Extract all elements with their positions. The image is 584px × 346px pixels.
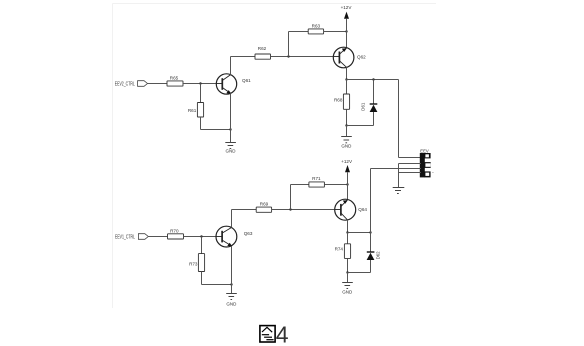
wire +12V to Q62 collector [346,19,348,48]
resistor R71 [309,176,325,187]
wire junction down to R73 [201,237,203,254]
ground (under Q63) [226,294,237,307]
resistor R61 [188,103,204,118]
wire junction up to R63 [288,32,290,57]
junction base/pullup [287,55,289,57]
wire Q62 emitter down [346,67,348,79]
wire R70 to Q63 base [184,236,217,238]
wire R73 to bottom rail [201,272,203,285]
svg-text:R68: R68 [334,97,343,102]
wire collector to R62 [231,56,256,58]
junction R74/D62 bottom [346,271,348,273]
wire bottom node to D62 anode [348,272,371,274]
junction R68/D61 bottom [345,124,347,126]
svg-text:+12V: +12V [341,5,353,10]
resistor R70 [168,228,184,239]
wire emitter node down to R68 [346,80,348,95]
ground (under R74) [342,283,353,295]
wire connector pin3 (from lower channel) [371,168,422,170]
svg-text:R74: R74 [335,246,344,251]
wire bottom node to D61 anode [347,125,374,127]
wire emitter node down to R74 [347,233,349,244]
connector EEV J1 [420,153,431,177]
svg-text:R70: R70 [170,228,179,233]
wire Q61 emitter to GND [230,93,232,142]
wire +12V to Q64 collector [347,172,349,199]
svg-text:R65: R65 [170,76,179,81]
wire R74 to bottom node [347,258,349,272]
wire R62 to Q62 base [271,56,334,58]
transistor Q62 [333,47,354,68]
transistor Q64 [335,199,356,220]
svg-text:D62: D62 [376,251,381,260]
wire output riser up to connector [370,169,372,233]
svg-text:Q62: Q62 [357,55,366,60]
junction emitter/rail [229,128,231,130]
svg-text:Q61: Q61 [242,78,251,83]
resistor R68 [334,94,350,109]
wire R65 to Q61 base [183,83,216,85]
wire R68 to lower node [346,109,348,125]
pin mark [432,171,434,173]
junction pullup/rail [346,183,348,185]
wire emitter node to output riser [348,232,371,234]
svg-text:EEV: EEV [420,149,429,154]
svg-text:+12V: +12V [341,159,353,164]
ground (under Q61) [225,143,236,154]
wire output drop to connector pin1 [399,80,422,158]
svg-text:D61: D61 [360,102,365,111]
resistor R74 [335,244,351,259]
transistor Q63 [216,226,237,247]
ground (connector) [393,188,405,194]
wire connector pin2 (GND) [399,163,422,165]
junction base/pullup [289,208,291,210]
figure border (faint) [113,4,437,309]
wire connector pin4 (GND) [399,172,422,174]
svg-text:GND: GND [226,148,237,153]
ground (under R68) [341,137,352,149]
wire R71 to +12V rail [324,184,347,186]
junction base/R61 [199,82,201,84]
power +12V (lower) [341,159,353,172]
svg-text:R71: R71 [312,176,321,181]
resistor R69 [256,202,271,213]
wire R61 to bottom rail [200,117,202,130]
junction emitter/rail [230,283,232,285]
junction emitter node [345,78,347,80]
resistor R73 [189,254,205,272]
svg-text:EEV2_CTRL: EEV2_CTRL [115,81,135,87]
wire emitter node to output drop [347,79,399,81]
wire port to R65 [148,83,168,85]
resistor R62 [255,46,271,59]
wire to R71 [291,184,309,186]
junction pullup/rail [345,30,347,32]
diode D61 [370,80,378,126]
wire Q63 emitter to GND [231,246,233,294]
wire junction down to R61 [200,84,202,103]
svg-text:R69: R69 [260,202,269,207]
svg-text:R61: R61 [188,108,197,113]
transistor Q61 [216,74,236,94]
junction output riser [369,231,371,233]
wire Q64 emitter down [347,220,349,233]
wire Q61 collector up [230,57,232,75]
wire bottom node to GND [347,273,349,283]
resistor R63 [308,24,323,34]
wire bottom node to GND [346,126,348,137]
svg-text:GND: GND [226,301,237,306]
svg-text:Q64: Q64 [358,207,367,212]
wire bottom rail to emitter [201,129,231,131]
power +12V (upper) [341,5,353,19]
net EEV2_CTRL port flag [138,81,148,87]
svg-text:R62: R62 [258,46,267,51]
wire R69 to Q64 base [272,209,335,211]
svg-text:R73: R73 [189,261,198,266]
caption 图4 [260,322,289,346]
wire bottom rail to emitter [202,284,232,286]
svg-text:EEV1_CTRL: EEV1_CTRL [115,234,135,240]
svg-text:R63: R63 [312,24,321,29]
wire R63 to +12V rail [324,31,347,33]
net EEV1_CTRL port flag [138,234,148,240]
svg-text:4: 4 [276,322,289,346]
svg-text:GND: GND [341,143,352,148]
wire GND drop [398,164,400,188]
net EEV2_CTRL label [115,81,135,87]
resistor R65 [167,76,183,87]
wire collector to R69 [232,209,257,211]
wire junction up to R71 [290,185,292,210]
svg-text:Q63: Q63 [244,231,253,236]
wire Q63 collector up [231,210,233,228]
svg-text:GND: GND [342,289,353,294]
junction emitter node [346,231,348,233]
diode D62 [367,233,375,273]
junction base/R73 [200,235,202,237]
junction D61 tap [372,78,374,80]
wire port to R70 [148,236,167,238]
wire to R63 [289,31,309,33]
